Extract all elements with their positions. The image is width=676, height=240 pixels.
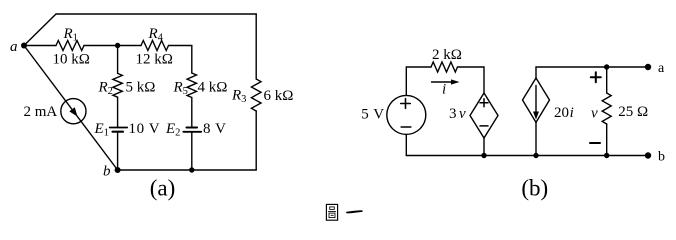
svg-text:10 V: 10 V [129,121,161,137]
wire top right section [536,67,648,78]
wire right side upper (top wire to R3) [255,14,257,79]
caption character Yi (one) drawn as stroke [346,210,363,213]
svg-text:(b): (b) [521,176,548,201]
resistor R5 4 kOhm zigzag [187,73,196,98]
dependent voltage source 3v diamond [470,93,498,138]
svg-text:5 V: 5 V [361,107,384,123]
wire 5V top [406,67,431,95]
svg-text:v: v [591,105,598,121]
svg-text:2 mA: 2 mA [24,104,58,120]
wire 3v source to bottom [483,138,485,156]
wire bottom of circuit (a) [118,169,257,171]
3v source minus sign [480,125,488,127]
svg-text:R5: R5 [173,80,188,98]
wire R2 to battery E1 [117,97,119,127]
plus sign for v [591,72,601,82]
resistor R4 12 kOhm zigzag [141,41,169,51]
3v source plus sign [480,99,488,107]
node a dot [21,43,27,49]
wire 25 Ohm bottom [606,124,608,156]
svg-text:10 kΩ: 10 kΩ [53,52,90,68]
junction dot 20i bottom [533,153,538,158]
svg-text:2 kΩ: 2 kΩ [432,47,462,63]
current arrow i [432,79,460,84]
resistor 2 kOhm zigzag [431,62,458,72]
terminal a dot [645,64,651,70]
wire diagonal node a through current source to node b [24,46,118,171]
20i source arrow [533,86,539,120]
wire R1 to junction [84,45,118,47]
voltage source plus sign [401,99,411,109]
resistor 25 Ohm zigzag [602,93,611,124]
junction dot 3v bottom [481,153,486,158]
wire E2 to bottom wire [191,132,193,170]
current source 2 mA circle [61,99,86,124]
wire R5 to battery E2 [191,98,193,128]
svg-text:b: b [103,164,111,180]
junction dot R1/R4/R2 [115,43,120,48]
node b dot [115,167,121,173]
wire node a to R1 [24,45,56,47]
svg-text:R2: R2 [98,80,113,98]
svg-text:E2: E2 [165,121,180,139]
svg-text:(a): (a) [150,176,176,201]
svg-text:6 kΩ: 6 kΩ [264,88,294,104]
junction dot 25 Ohm top [604,64,609,69]
wire E1 to node b [117,132,119,170]
current source arrowhead [69,107,77,116]
wire bottom of circuit (b) [406,155,648,157]
battery E1 10 V plates [110,128,128,132]
resistor R3 6 kOhm zigzag [251,79,261,111]
wire junction to R4 [118,45,141,47]
svg-text:25 Ω: 25 Ω [618,104,648,120]
wire top of circuit (a) [56,13,256,15]
terminal b dot [645,152,651,158]
wire 20i to bottom [535,122,537,155]
svg-text:3: 3 [449,106,457,122]
junction dot 25 Ohm bottom [604,153,609,158]
wire diagonal node a to top wire [24,14,56,46]
svg-text:v: v [459,106,466,122]
voltage source minus sign [401,126,411,128]
wire 2kOhm to 3v source [458,67,485,93]
caption character Tu (figure) drawn as strokes [326,204,337,220]
resistor R2 5 kOhm zigzag [113,73,122,97]
dependent current source 20i diamond [523,78,550,122]
wire R4 to right corner [169,46,192,74]
svg-text:b: b [658,150,665,165]
svg-text:R4: R4 [148,26,164,44]
svg-text:a: a [658,61,665,76]
minus sign for v [590,142,600,144]
wire 25 Ohm top [606,67,608,93]
svg-text:8 V: 8 V [203,121,227,137]
svg-text:i: i [442,82,446,98]
svg-text:E1: E1 [94,121,109,139]
junction dot bottom E2 [189,167,194,172]
battery E2 8 V plates [183,128,201,132]
wire 5V bottom [405,134,407,155]
svg-text:5 kΩ: 5 kΩ [126,80,156,96]
voltage source 5 V circle [387,95,426,134]
svg-text:4 kΩ: 4 kΩ [198,80,228,96]
wire junction down to R2 [117,46,119,74]
resistor R1 10 kOhm zigzag [56,41,84,51]
svg-text:i: i [570,105,574,121]
svg-text:R3: R3 [231,88,246,106]
svg-text:R1: R1 [63,26,78,44]
wire right side lower (R3 to bottom) [255,111,257,170]
svg-text:a: a [10,39,18,55]
svg-text:20: 20 [554,105,569,121]
svg-text:12 kΩ: 12 kΩ [136,52,173,68]
